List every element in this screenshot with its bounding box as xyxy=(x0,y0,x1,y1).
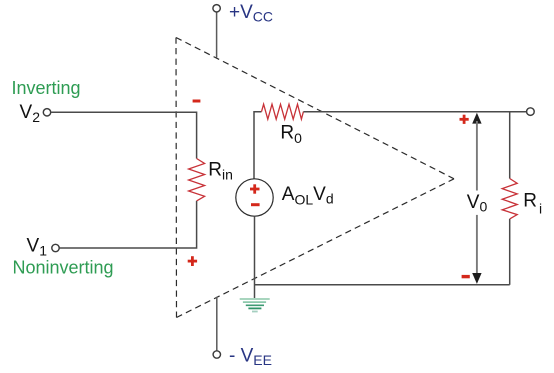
V0 arrow shaft lower xyxy=(476,215,478,276)
terminal V2 xyxy=(43,109,50,116)
wire -VEE xyxy=(216,297,218,351)
terminal V1 xyxy=(52,244,59,251)
minus sign output xyxy=(462,275,470,278)
ground xyxy=(240,299,270,312)
plus sign inside source xyxy=(250,184,260,193)
minus sign inverting input xyxy=(193,100,201,103)
wire RL to bottom rail xyxy=(509,219,511,285)
svg-text:Inverting: Inverting xyxy=(12,78,81,98)
op-amp U1 dashed triangle left edge xyxy=(175,38,178,318)
wire source to R0 xyxy=(254,112,262,179)
V0 arrow up head xyxy=(472,113,481,124)
svg-text:Noninverting: Noninverting xyxy=(13,258,114,278)
wire R0 to output terminal xyxy=(303,111,526,113)
dependent source U2 circle xyxy=(236,179,273,216)
wire source to ground xyxy=(254,216,256,298)
wire bottom rail xyxy=(255,284,510,286)
wire output to RL xyxy=(509,112,511,179)
V0 arrow down head xyxy=(472,273,481,284)
wire V2 input to Rin xyxy=(51,112,197,158)
op-amp U1 dashed triangle bottom edge xyxy=(177,179,455,318)
minus sign inside source xyxy=(251,203,260,206)
plus sign output xyxy=(460,115,469,124)
op-amp U1 dashed triangle top edge xyxy=(176,38,454,179)
plus sign noninverting input xyxy=(188,256,197,266)
wire Rin to V1 input xyxy=(59,201,196,248)
resistor RL xyxy=(502,179,517,219)
wire VCC xyxy=(216,12,218,58)
terminal -VEE xyxy=(213,351,220,358)
resistor R0 xyxy=(262,104,304,119)
resistor Rin xyxy=(189,159,205,201)
V0 arrow shaft upper xyxy=(476,121,478,191)
terminal +VCC xyxy=(213,5,220,12)
terminal output xyxy=(527,108,535,116)
